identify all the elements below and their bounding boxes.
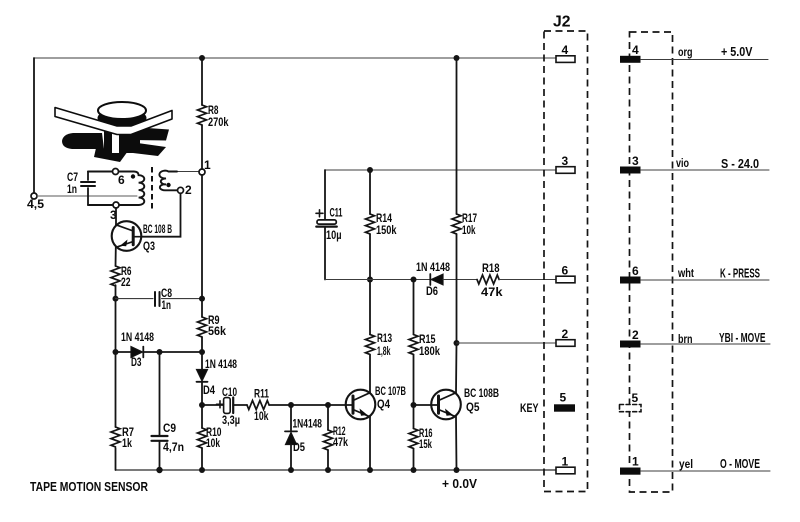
wire: node 2 to Q3 base bbox=[142, 193, 181, 236]
svg-text:1N 4148: 1N 4148 bbox=[205, 357, 237, 371]
transistor Q3 BC108B bbox=[112, 221, 172, 253]
junction: R10 column / C8 row bbox=[199, 296, 205, 302]
wire: brn YB1-MOVE bbox=[641, 343, 771, 345]
svg-text:vio: vio bbox=[676, 156, 689, 170]
svg-text:10µ: 10µ bbox=[326, 228, 342, 242]
diode D4 1N4148 bbox=[197, 357, 238, 405]
svg-text:2: 2 bbox=[562, 327, 569, 341]
svg-text:S - 24.0: S - 24.0 bbox=[721, 157, 759, 171]
svg-text:TAPE MOTION SENSOR: TAPE MOTION SENSOR bbox=[30, 480, 148, 494]
svg-text:6: 6 bbox=[632, 264, 639, 278]
svg-text:47k: 47k bbox=[481, 285, 503, 299]
J2 pin 2 bbox=[556, 327, 575, 346]
capacitor C7 bbox=[67, 170, 95, 205]
junction: top rail / R8 column bbox=[199, 55, 205, 61]
svg-text:1N 4148: 1N 4148 bbox=[121, 330, 154, 344]
resistor R7 bbox=[111, 425, 134, 450]
wire: R17 down across K-PRESS row to YB1 node bbox=[456, 234, 458, 343]
wire: R13 top to K-PRESS row bbox=[369, 280, 371, 335]
wire: vio S-24.0 bbox=[641, 169, 770, 171]
J2 pin 3 bbox=[556, 154, 575, 173]
svg-text:2: 2 bbox=[185, 183, 192, 197]
svg-text:D3: D3 bbox=[131, 355, 142, 369]
svg-text:Q5: Q5 bbox=[466, 400, 480, 414]
svg-text:org: org bbox=[678, 45, 693, 59]
wire: tap 4,5 to transformer bbox=[37, 195, 137, 197]
svg-text:KEY: KEY bbox=[520, 401, 539, 415]
wire: org +5.0V bbox=[641, 59, 769, 61]
svg-text:yel: yel bbox=[679, 457, 693, 471]
junction: left column / D3 row bbox=[113, 349, 119, 355]
wire: Q4 emitter to ground bbox=[369, 417, 371, 470]
J2 pin 6 bbox=[556, 264, 575, 283]
wire: R6 to D3 row and down to R7 bbox=[115, 285, 117, 427]
wire: S-24.0 row (node row 3) bbox=[325, 169, 556, 171]
capacitor C9 bbox=[152, 352, 185, 470]
svg-text:D4: D4 bbox=[203, 383, 215, 397]
node 6 (open circle) bbox=[113, 169, 119, 175]
svg-text:C10: C10 bbox=[222, 385, 237, 399]
svg-text:1N 4148: 1N 4148 bbox=[416, 260, 450, 274]
svg-text:BC 107B: BC 107B bbox=[375, 384, 406, 398]
svg-text:BC 108B: BC 108B bbox=[464, 386, 499, 400]
wire: YB1-MOVE row to J2 pin 2 bbox=[457, 342, 557, 344]
junction: D5 / ground rail bbox=[288, 467, 294, 473]
sensor rotor white shaft slot bbox=[112, 118, 119, 153]
wire: R9 to D3 row junction bbox=[201, 337, 203, 352]
svg-text:+ 5.0V: + 5.0V bbox=[721, 45, 753, 59]
resistor R13 1,8k bbox=[366, 331, 393, 358]
junction: top rail / R17 column bbox=[454, 55, 460, 61]
diode D5 1N4148 bbox=[285, 405, 322, 470]
svg-text:4: 4 bbox=[562, 43, 569, 57]
node 2 (open circle) bbox=[178, 187, 184, 193]
sensor tape band bbox=[55, 108, 172, 135]
svg-text:1: 1 bbox=[562, 455, 569, 469]
wire: Q5 collector up bbox=[455, 343, 458, 393]
resistor R18 47k bbox=[477, 261, 556, 299]
node 1 (open circle) bbox=[199, 169, 205, 175]
wire: Q5 emitter to ground bbox=[455, 417, 458, 470]
svg-text:D5: D5 bbox=[293, 440, 305, 454]
wire: C8 row to R9 bbox=[201, 299, 203, 317]
resistor R8 270k bbox=[198, 103, 229, 129]
wire: Q4 collector up to R13 bbox=[369, 355, 371, 393]
junction: Q5 emitter / ground rail bbox=[454, 467, 460, 473]
svg-text:brn: brn bbox=[678, 332, 693, 346]
cable pin 6 bbox=[620, 264, 641, 284]
svg-text:2: 2 bbox=[632, 328, 639, 342]
capacitor C8 bbox=[116, 286, 203, 312]
junction: R10 / ground rail bbox=[199, 467, 205, 473]
svg-text:wht: wht bbox=[677, 266, 694, 280]
svg-text:D6: D6 bbox=[426, 284, 438, 298]
svg-text:150k: 150k bbox=[376, 223, 397, 237]
resistor R11 10k bbox=[247, 387, 353, 424]
junction: R12 / ground rail bbox=[325, 467, 331, 473]
svg-text:R11: R11 bbox=[254, 387, 269, 401]
junction: C9 / ground rail bbox=[156, 467, 162, 473]
svg-text:1N4148: 1N4148 bbox=[293, 417, 323, 431]
svg-text:270k: 270k bbox=[208, 115, 229, 129]
svg-text:1: 1 bbox=[632, 455, 639, 469]
svg-text:10k: 10k bbox=[206, 436, 220, 450]
node 3 (open circle) bbox=[113, 202, 119, 208]
svg-text:5: 5 bbox=[632, 391, 639, 405]
resistor R6 bbox=[111, 264, 132, 289]
junction: D3 row / R10 column bbox=[199, 349, 205, 355]
wire: left vertical drop to node 4,5 bbox=[33, 58, 35, 193]
svg-text:10k: 10k bbox=[462, 223, 476, 237]
J2 pin 4 bbox=[556, 43, 575, 62]
junction: base row / R12 bbox=[325, 402, 331, 408]
transformer primary winding (pins 6,3) bbox=[88, 172, 144, 206]
transformer core bbox=[151, 167, 153, 209]
resistor R16 15k bbox=[409, 405, 433, 470]
junction: base row / D5 bbox=[288, 402, 294, 408]
svg-text:6: 6 bbox=[562, 264, 569, 278]
wire: R8 to node 1 bbox=[201, 125, 203, 169]
junction: R15-R16 / Q5 base bbox=[411, 402, 417, 408]
junction: K-PRESS row / R13-R14 bbox=[367, 277, 373, 283]
diode D6 1N4148 bbox=[416, 260, 477, 298]
svg-text:C11: C11 bbox=[330, 206, 343, 220]
diode D3 1N4148 bbox=[116, 330, 203, 369]
svg-text:4: 4 bbox=[632, 43, 639, 57]
resistor R17 10k bbox=[452, 211, 477, 237]
cable pin 3 bbox=[620, 154, 641, 174]
transformer secondary winding (pins 1,2) bbox=[159, 171, 199, 191]
cable pin 2 bbox=[620, 328, 641, 348]
svg-text:56k: 56k bbox=[208, 324, 226, 338]
svg-text:1n: 1n bbox=[162, 298, 172, 312]
svg-text:+ 0.0V: + 0.0V bbox=[442, 477, 478, 491]
wire: R8 column top bbox=[201, 58, 203, 105]
junction: D3 row / C9 column bbox=[157, 349, 163, 355]
svg-text:3: 3 bbox=[632, 154, 639, 168]
svg-text:R18: R18 bbox=[482, 261, 500, 275]
svg-text:1: 1 bbox=[204, 158, 211, 172]
svg-text:3: 3 bbox=[562, 154, 569, 168]
wire: ground rail +0.0V bbox=[116, 469, 557, 471]
svg-text:J2: J2 bbox=[553, 14, 571, 31]
svg-text:3,3µ: 3,3µ bbox=[222, 413, 240, 427]
svg-text:YBI - MOVE: YBI - MOVE bbox=[719, 331, 766, 345]
junction: left column / C8 row bbox=[113, 296, 119, 302]
wire: R17 column (+5V to YB1 node) bbox=[456, 58, 458, 214]
wire: top +5V rail bbox=[34, 57, 556, 59]
cable pin 5 (unused, dashed) bbox=[620, 391, 642, 412]
resistor R15 180k bbox=[409, 280, 440, 406]
svg-text:O - MOVE: O - MOVE bbox=[720, 457, 760, 471]
J2 pin 5 KEY bbox=[520, 391, 575, 416]
wire: Q3 collector to node 3 bbox=[115, 208, 117, 225]
resistor R10 10k bbox=[198, 405, 222, 470]
transistor Q4 BC107B bbox=[346, 384, 407, 419]
svg-text:15k: 15k bbox=[419, 437, 432, 451]
capacitor C10 3,3u (electrolytic) bbox=[202, 385, 247, 427]
junction: R16 / ground rail bbox=[411, 467, 417, 473]
svg-text:R13: R13 bbox=[377, 331, 392, 345]
sensor disc (cylinder) bbox=[98, 102, 147, 128]
svg-text:1k: 1k bbox=[122, 436, 132, 450]
svg-text:1n: 1n bbox=[67, 182, 77, 196]
J2 pin 1 bbox=[556, 455, 575, 474]
resistor R9 56k bbox=[198, 313, 227, 338]
svg-text:K - PRESS: K - PRESS bbox=[720, 267, 760, 281]
resistor R12 4.7k bbox=[324, 405, 349, 470]
wire: D3 row to D4 bbox=[201, 352, 203, 370]
svg-text:10k: 10k bbox=[254, 409, 269, 423]
cable pin 4 bbox=[620, 43, 641, 63]
svg-text:BC 108 B: BC 108 B bbox=[143, 222, 172, 236]
wire: node 1 down to C8 row bbox=[201, 175, 203, 299]
svg-text:4,7n: 4,7n bbox=[163, 440, 184, 454]
wire: yel O-MOVE bbox=[641, 470, 771, 472]
wire: K-PRESS row left segment bbox=[325, 279, 430, 281]
junction: K-PRESS row / R15 bbox=[411, 277, 417, 283]
wire: Q5 base bbox=[414, 404, 439, 406]
junction: YB1-MOVE node / Q5 collector bbox=[454, 340, 460, 346]
transistor Q5 BC108B bbox=[431, 386, 499, 419]
cable pin 1 bbox=[620, 455, 641, 475]
svg-text:47k: 47k bbox=[333, 435, 348, 449]
svg-text:22: 22 bbox=[121, 275, 131, 289]
svg-text:1,8k: 1,8k bbox=[377, 344, 391, 358]
capacitor C11 10u (electrolytic) bbox=[316, 170, 343, 280]
wire: wht K-PRESS bbox=[641, 279, 770, 281]
svg-text:180k: 180k bbox=[419, 344, 440, 358]
node 4,5 (open circle) bbox=[31, 193, 37, 199]
svg-text:C9: C9 bbox=[163, 421, 176, 435]
svg-text:6: 6 bbox=[118, 173, 125, 187]
resistor R14 150k bbox=[366, 170, 397, 280]
junction: row 3 / R14 bbox=[367, 167, 373, 173]
cable connector dashed outline bbox=[630, 32, 673, 492]
junction: node C10 / R10 bbox=[199, 402, 205, 408]
sensor rotor blades (mechanical drawing) bbox=[62, 120, 169, 162]
wire: Q3 emitter down bbox=[115, 247, 117, 266]
svg-text:Q3: Q3 bbox=[143, 239, 155, 253]
connector J2 dashed outline bbox=[544, 31, 588, 492]
svg-text:Q4: Q4 bbox=[377, 397, 390, 411]
svg-text:5: 5 bbox=[560, 391, 567, 405]
junction: Q4 emitter / ground rail bbox=[367, 467, 373, 473]
wire: R7 to ground rail bbox=[115, 448, 117, 470]
svg-text:4,5: 4,5 bbox=[27, 197, 44, 211]
